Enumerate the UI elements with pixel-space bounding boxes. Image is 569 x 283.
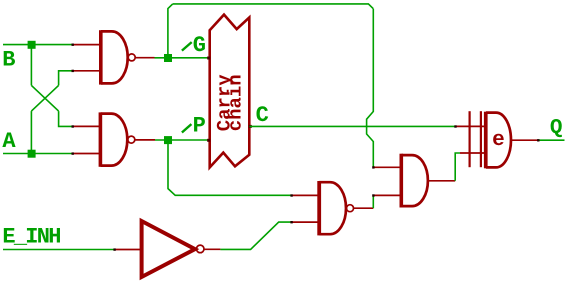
node P junction <box>164 136 172 144</box>
pin dot G on block <box>207 57 210 60</box>
wire feedback drop with hop <box>367 9 374 167</box>
wire Q <box>538 139 564 141</box>
nand-gate U2 <box>99 112 103 166</box>
pin U2 input 2 <box>73 153 100 155</box>
xnor input bar 2 <box>480 111 482 167</box>
node A junction <box>28 150 36 158</box>
wire B vertical drop <box>30 45 32 86</box>
svg-text:Q: Q <box>550 117 563 140</box>
svg-text:B: B <box>2 48 15 73</box>
svg-text:A: A <box>2 129 16 154</box>
pin U2 input 1 <box>73 125 100 127</box>
svg-text:chain: chain <box>225 74 247 131</box>
wire A horizontal <box>3 153 73 155</box>
and-gate U6 <box>400 154 404 208</box>
pin dot C on block <box>249 125 252 128</box>
pin end dot gate U2 in2 <box>72 152 74 154</box>
pin XNOR input 1 <box>455 125 485 127</box>
pin U6 output <box>428 180 455 182</box>
wire A vertical rise <box>30 111 32 153</box>
pin U1 input 2 <box>73 70 101 72</box>
wire top feedback run <box>173 4 374 9</box>
pin U2 output <box>135 139 155 141</box>
pin end dot XNOR output <box>537 139 539 141</box>
bubble U3 <box>347 205 354 212</box>
pin U7 output <box>511 139 538 141</box>
xnor input bar 1 <box>469 111 471 167</box>
xnor-gate U7 body <box>484 112 488 169</box>
pin U6 input 1 <box>373 166 400 168</box>
pin end dot U6 in1 corner <box>372 166 374 168</box>
pin U1 input 1 <box>73 44 101 46</box>
pin dot P on block <box>207 139 210 142</box>
wire U3 output corner <box>372 195 374 208</box>
net G wire to carry block <box>155 57 209 59</box>
wire A to gate U1 input 2 <box>59 71 73 86</box>
pin end dot U3 in1 <box>290 194 292 196</box>
pin U3 output <box>354 207 373 209</box>
pin U3 input 1 <box>292 194 319 196</box>
net P wire to carry block <box>155 139 209 141</box>
net C wire <box>250 125 456 127</box>
pin end dot gate U1 in2 <box>72 70 74 72</box>
nand-gate U3 <box>317 181 321 235</box>
wire G feedback riser <box>168 4 173 54</box>
wire A diagonal cross <box>31 85 58 111</box>
wire E_INH <box>3 249 115 251</box>
bubble U1 <box>128 54 135 61</box>
pin slash marker G <box>182 42 192 51</box>
pin inverter output <box>204 248 220 250</box>
pin end dot U3 in2 <box>290 221 292 223</box>
pin end dot U6 in2 corner <box>372 194 374 196</box>
svg-text:e: e <box>492 129 505 152</box>
pin end dot XNOR in1 <box>454 125 456 127</box>
pin U6 input 2 <box>373 194 400 196</box>
pin end dot gate U1 in1 <box>72 44 74 46</box>
pin U3 input 2 <box>292 221 319 223</box>
pin slash marker P <box>182 124 192 132</box>
bubble U4 <box>196 245 204 253</box>
svg-text:E_INH: E_INH <box>2 224 61 249</box>
bubble U2 <box>128 136 135 143</box>
pin end dot inverter input <box>113 248 115 250</box>
carry chain block U5 <box>210 15 250 168</box>
inverter U4 <box>142 221 195 277</box>
wire inverter to gate U3 <box>220 222 291 249</box>
wire B diagonal cross <box>31 85 58 111</box>
pin end dot gate U2 in1 <box>72 125 74 127</box>
svg-text:P: P <box>193 113 206 138</box>
wire B to gate U2 input 1 <box>59 111 73 126</box>
wire U6 output to XNOR <box>455 153 460 181</box>
svg-text:C: C <box>256 103 269 128</box>
wire P drop to gate U3 <box>168 144 292 195</box>
node B junction <box>28 41 36 49</box>
wire B horizontal <box>3 44 73 46</box>
nand-gate U1 <box>99 30 103 84</box>
pin XNOR input 2 <box>460 152 485 154</box>
node G junction <box>164 54 172 62</box>
pin U1 output <box>136 57 155 59</box>
pin inverter input <box>115 249 141 251</box>
svg-text:G: G <box>193 33 206 58</box>
